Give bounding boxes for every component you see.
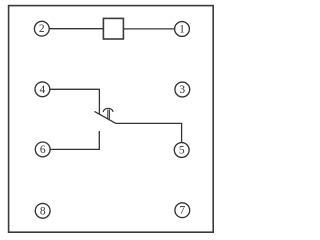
actuator arrow — [103, 108, 113, 119]
svg-text:4: 4 — [40, 84, 46, 96]
svg-text:8: 8 — [40, 205, 46, 217]
relay coil — [103, 18, 123, 39]
svg-text:3: 3 — [179, 84, 185, 96]
contact blade — [95, 111, 116, 123]
wire coil right lead — [123, 28, 174, 30]
wire NO leg to 5 — [116, 123, 182, 142]
wire NC leg from 6 — [50, 131, 99, 149]
svg-text:7: 7 — [179, 205, 185, 217]
svg-text:5: 5 — [179, 145, 185, 157]
terminal 4 — [35, 82, 50, 97]
terminal 6 — [35, 142, 50, 157]
terminal 5 — [174, 143, 189, 158]
terminal 7 — [175, 203, 190, 218]
terminal 2 — [34, 21, 49, 36]
wire coil left lead — [49, 28, 103, 30]
svg-text:6: 6 — [40, 144, 46, 156]
terminal 3 — [175, 82, 190, 97]
wire common leg from 4 — [50, 89, 100, 114]
svg-text:2: 2 — [39, 23, 45, 35]
terminal 1 — [175, 22, 190, 37]
svg-text:1: 1 — [179, 24, 185, 36]
terminal 8 — [35, 203, 50, 218]
